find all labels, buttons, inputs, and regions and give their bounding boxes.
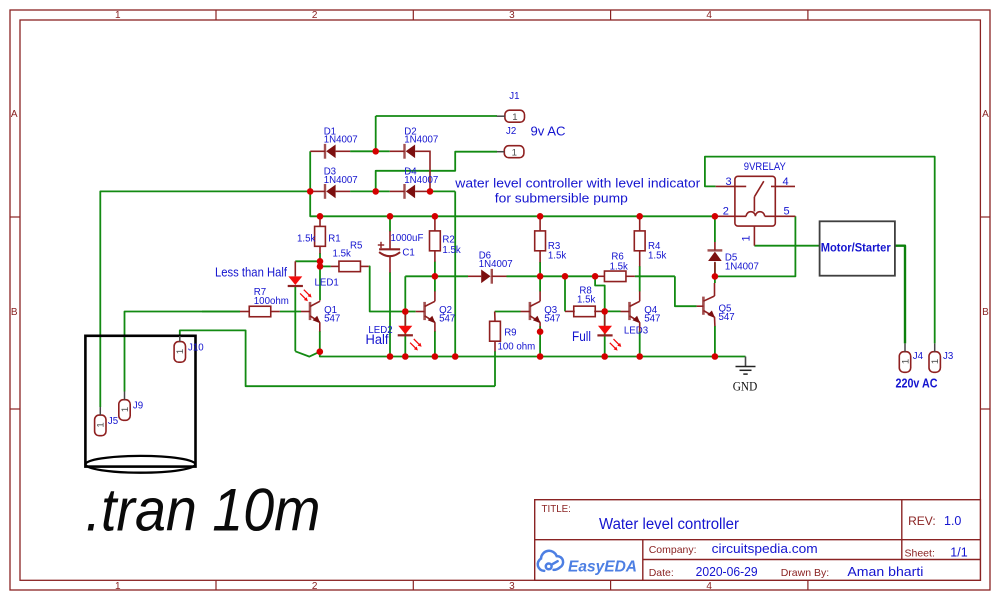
svg-text:R1: R1 (328, 233, 340, 244)
svg-text:1.0: 1.0 (944, 514, 961, 528)
svg-text:A: A (982, 109, 989, 120)
svg-text:1: 1 (930, 359, 941, 364)
wire bus to C1 (389, 216, 391, 231)
wire LED3 anode drop (604, 311, 606, 356)
svg-text:4: 4 (706, 581, 712, 592)
wire relay pin1 to motor (754, 245, 819, 247)
ground GND (733, 367, 758, 394)
wire D3-D4 mid (350, 190, 390, 192)
LED LED3 (572, 311, 648, 350)
svg-text:1.5k: 1.5k (297, 233, 315, 244)
svg-text:Full: Full (572, 329, 591, 344)
svg-text:3: 3 (726, 176, 732, 188)
svg-text:547: 547 (439, 313, 455, 324)
connector J9 (119, 392, 143, 421)
svg-text:1N4007: 1N4007 (725, 261, 759, 272)
sim directive .tran 10m (86, 476, 321, 543)
wire supply bus (310, 191, 715, 216)
wire tank J5 to D3 row (100, 191, 310, 407)
svg-text:J10: J10 (188, 342, 204, 353)
svg-text:5: 5 (784, 206, 790, 218)
wire R7 to Q1 base (202, 311, 301, 313)
svg-text:A: A (11, 109, 18, 120)
svg-text:EasyEDA: EasyEDA (568, 559, 637, 576)
wire J1 to bridge node (376, 116, 497, 151)
svg-text:1.5k: 1.5k (442, 245, 460, 256)
wire ground bus (320, 352, 746, 357)
connector J5 (95, 407, 119, 436)
wire Q2 emitter drop (434, 331, 436, 357)
water tank (85, 336, 195, 473)
svg-text:3: 3 (509, 581, 515, 592)
wire R6 jog to Q4 base (595, 276, 605, 311)
resistor R3 (535, 216, 567, 262)
wire R8 right to Q4 base (601, 310, 621, 312)
wire relay pin3 to J3 (705, 157, 935, 344)
svg-text:3: 3 (509, 10, 515, 21)
wire bus to D5 cathode (714, 216, 716, 242)
resistor R9 (490, 312, 536, 353)
wire R3 bottom (539, 262, 541, 276)
svg-text:LED3: LED3 (624, 325, 648, 336)
diode D4 (390, 167, 438, 199)
svg-text:circuitspedia.com: circuitspedia.com (712, 541, 818, 556)
svg-text:1.5k: 1.5k (333, 249, 351, 260)
svg-text:1: 1 (512, 112, 517, 123)
diode D2 (390, 126, 438, 191)
resistor R7 (240, 287, 289, 317)
svg-text:4: 4 (706, 10, 712, 21)
wire Q1 emitter to ground (319, 331, 321, 352)
wire Q3 collector riser (539, 276, 541, 291)
wire R5 right to Q2 base (369, 266, 416, 311)
svg-text:Water level controller: Water level controller (599, 516, 739, 533)
wire J2 to D3-D4 node (376, 152, 497, 192)
svg-text:1: 1 (115, 10, 121, 21)
wire R5 left / Q1 collector (320, 266, 331, 300)
svg-text:2020-06-29: 2020-06-29 (696, 564, 758, 579)
svg-text:C1: C1 (402, 247, 414, 258)
svg-text:Motor/Starter: Motor/Starter (821, 243, 892, 255)
wire D1 row left (309, 151, 311, 191)
resistor R2 (430, 216, 461, 261)
wire R4 to Q4 collector (639, 266, 641, 292)
svg-text:1: 1 (512, 148, 517, 159)
wire LED1 cathode (294, 287, 296, 351)
svg-text:1: 1 (175, 349, 186, 354)
svg-text:.tran 10m: .tran 10m (86, 476, 321, 543)
wire Q3 emitter drop (539, 326, 541, 356)
svg-text:B: B (11, 307, 18, 318)
net label 220v AC (896, 376, 938, 390)
wire LED1 to emitter join (295, 351, 320, 356)
svg-text:2: 2 (312, 10, 318, 21)
svg-text:100ohm: 100ohm (254, 296, 289, 307)
svg-text:Drawn By:: Drawn By: (781, 567, 829, 579)
svg-text:2: 2 (312, 581, 318, 592)
svg-text:J1: J1 (509, 91, 519, 102)
wire R9 to Q3 base (495, 311, 521, 313)
wire level line 276 left (405, 275, 435, 277)
svg-text:J2: J2 (506, 126, 516, 137)
capacitor C1 (378, 231, 424, 273)
svg-text:GND: GND (733, 379, 758, 394)
wire Q4 emitter drop (639, 331, 641, 357)
connector J4 (899, 343, 923, 372)
connector J2 (497, 126, 524, 158)
svg-text:water level controller with le: water level controller with level indica… (454, 177, 701, 191)
svg-text:100 ohm: 100 ohm (498, 342, 536, 353)
wire Q5 collector to D5 node (714, 276, 716, 283)
svg-text:J4: J4 (913, 351, 924, 362)
svg-text:Less than Half: Less than Half (215, 265, 287, 280)
diode D6 (468, 250, 513, 283)
svg-text:9VRELAY: 9VRELAY (744, 161, 787, 173)
annotation submersible text (495, 191, 628, 206)
svg-text:R2: R2 (442, 234, 454, 245)
svg-text:1000uF: 1000uF (391, 233, 424, 244)
svg-text:for submersible pump: for submersible pump (495, 191, 628, 206)
diode D3 (310, 167, 357, 199)
net label 9v AC (531, 123, 566, 138)
svg-text:1N4007: 1N4007 (479, 259, 513, 270)
svg-text:9v AC: 9v AC (531, 123, 566, 138)
wire D4 out to ground drop (430, 191, 455, 356)
svg-text:1/1: 1/1 (950, 546, 967, 560)
wire D5 node to relay pin5 (715, 216, 796, 276)
wire D1-D2 mid (350, 150, 390, 152)
transistor Q1 (301, 300, 340, 331)
svg-text:J9: J9 (133, 400, 143, 411)
resistor R6 (595, 252, 635, 282)
svg-text:1: 1 (120, 407, 131, 412)
wire R6 left node (565, 275, 595, 277)
wire tank J10 probe (180, 330, 495, 386)
svg-text:Aman bharti: Aman bharti (847, 564, 923, 579)
wire R2 bottom to Q2 collector (434, 262, 436, 292)
junction dots (307, 148, 718, 360)
wire R9 bottom probe (494, 351, 496, 386)
svg-text:1: 1 (741, 235, 753, 241)
svg-text:Sheet:: Sheet: (905, 548, 935, 560)
wire D6 to R3 node (507, 275, 541, 277)
svg-text:Half: Half (366, 332, 389, 347)
connector J1 (497, 91, 525, 123)
svg-text:B: B (982, 307, 989, 318)
svg-text:1N4007: 1N4007 (324, 175, 358, 186)
LED LED1 (288, 261, 339, 301)
svg-text:1N4007: 1N4007 (324, 135, 358, 146)
wire LED2 anode riser (404, 276, 406, 356)
svg-text:TITLE:: TITLE: (542, 504, 571, 515)
transistor Q4 (621, 291, 661, 331)
svg-text:R9: R9 (504, 328, 516, 339)
wire 276 line to R8 drop (540, 276, 565, 311)
wire R6 right to Q5 corner (635, 275, 675, 277)
resistor R8 (565, 285, 601, 316)
transistor Q3 (521, 291, 561, 326)
LED LED2 (366, 312, 422, 351)
wire ground stub (745, 357, 747, 367)
svg-text:REV:: REV: (908, 514, 936, 528)
wire R1 bottom node (295, 253, 320, 266)
annotation Less than Half (215, 265, 287, 280)
svg-text:547: 547 (324, 313, 340, 324)
svg-text:1: 1 (96, 422, 107, 427)
relay K1 9VRELAY (716, 161, 796, 246)
svg-text:1.5k: 1.5k (548, 251, 566, 262)
svg-text:LED1: LED1 (315, 277, 339, 288)
svg-text:1.5k: 1.5k (610, 262, 628, 273)
wire motor to J4 (895, 246, 905, 344)
diode D1 (310, 126, 357, 158)
wire corner to Q5 base (675, 276, 697, 306)
svg-text:1N4007: 1N4007 (404, 175, 438, 186)
svg-text:1: 1 (115, 581, 121, 592)
wire tank J9 to R7 (125, 312, 241, 392)
svg-text:Company:: Company: (649, 544, 697, 556)
resistor R5 (331, 241, 369, 272)
svg-text:547: 547 (544, 313, 560, 324)
transistor Q5 (697, 283, 735, 326)
diode D5 (708, 242, 759, 276)
svg-text:4: 4 (783, 176, 789, 188)
svg-text:R5: R5 (350, 241, 362, 252)
svg-text:2: 2 (723, 206, 729, 218)
connector J10 (174, 336, 204, 362)
svg-text:1N4007: 1N4007 (404, 135, 438, 146)
transistor Q2 (416, 291, 456, 331)
svg-text:547: 547 (719, 312, 735, 323)
svg-text:1.5k: 1.5k (648, 251, 666, 262)
connector J3 (929, 343, 953, 372)
resistor R1 (297, 216, 341, 253)
annotation water level text (454, 177, 701, 191)
svg-text:547: 547 (644, 313, 660, 324)
wire 276 line to D6 (435, 275, 468, 277)
svg-text:220v AC: 220v AC (896, 376, 938, 390)
motor starter box (820, 221, 895, 275)
wire Q5 emitter drop (714, 326, 716, 357)
resistor R4 (634, 216, 666, 266)
wire C1 bottom (389, 272, 391, 356)
svg-text:1.5k: 1.5k (577, 295, 595, 306)
svg-text:J3: J3 (943, 351, 953, 362)
svg-text:J5: J5 (108, 416, 118, 427)
wire D5 anode (714, 262, 716, 276)
svg-text:Date:: Date: (649, 567, 674, 579)
svg-text:1: 1 (900, 359, 911, 364)
